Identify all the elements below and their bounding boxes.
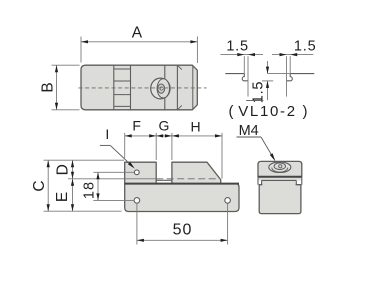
F/G/H extension line d bbox=[221, 133, 223, 179]
left lip profile bbox=[242, 74, 248, 81]
dimension 50 line bbox=[137, 239, 228, 241]
side view body top fill patch bbox=[262, 181, 295, 186]
M4 underline bbox=[237, 136, 262, 138]
side inner notch left bbox=[261, 180, 263, 184]
right 1.5 arrow a bbox=[280, 53, 287, 56]
vertical 1.5 lower line bbox=[267, 81, 269, 100]
side outer edge right below cap bbox=[301, 177, 303, 185]
svg-text:(: ( bbox=[229, 103, 234, 120]
dimension B arrow bottom bbox=[55, 103, 58, 110]
top view internal vertical edge right of ladder bbox=[130, 65, 132, 110]
hole I (upper) bbox=[134, 170, 139, 175]
ladder rung 1 bbox=[114, 68, 131, 70]
svg-text:A: A bbox=[132, 25, 143, 42]
svg-text:F: F bbox=[132, 117, 141, 133]
right top block bbox=[172, 162, 221, 183]
F/G/H extension line c bbox=[171, 133, 173, 160]
dimension E arrow bottom bbox=[71, 204, 74, 211]
screw head mid arc (side view) bbox=[272, 168, 288, 173]
dimension C arrow bottom bbox=[47, 204, 50, 211]
left 1.5 dimension line bbox=[221, 54, 264, 56]
dimension E arrow top bbox=[71, 179, 74, 186]
vertical 1.5 arrow up bbox=[266, 81, 269, 88]
svg-text:VL10-2: VL10-2 bbox=[238, 103, 297, 120]
label I leader arrow bbox=[128, 162, 135, 169]
dimension A arrow left bbox=[81, 40, 88, 43]
svg-text:C: C bbox=[31, 180, 48, 191]
svg-text:B: B bbox=[40, 82, 57, 92]
right 1.5 arrow b bbox=[290, 53, 297, 56]
side inner notch right bbox=[295, 180, 297, 184]
svg-text:50: 50 bbox=[173, 221, 193, 238]
svg-text:I: I bbox=[105, 126, 109, 142]
side outer edge left below cap bbox=[257, 177, 259, 185]
screw recess ellipse (top view) bbox=[158, 84, 165, 93]
M4 leader line bbox=[261, 137, 272, 155]
top extension line (front view) bbox=[44, 159, 125, 161]
svg-text:E: E bbox=[54, 192, 71, 202]
left lip outer extension line bbox=[243, 56, 245, 73]
label I leader line bbox=[110, 145, 130, 164]
screw head outer ellipse (top view) bbox=[151, 78, 170, 99]
svg-text:1.5: 1.5 bbox=[226, 39, 249, 55]
side view body bbox=[259, 185, 301, 214]
vertical 1.5 extension line at lip bottom bbox=[262, 80, 273, 82]
svg-text:H: H bbox=[191, 118, 201, 134]
top view center line bbox=[79, 87, 207, 89]
vertical 1.5 dimension upper line bbox=[267, 61, 269, 74]
F/G/H extension line b bbox=[155, 133, 157, 160]
svg-text:D: D bbox=[55, 164, 72, 175]
screw center dot (top view) bbox=[160, 87, 163, 90]
section surface line right bbox=[290, 73, 314, 75]
dimension C arrow top bbox=[47, 160, 50, 167]
D/E shared extension line bbox=[68, 178, 156, 180]
dimension 18 arrow top bbox=[96, 172, 99, 179]
left 1.5 arrow a bbox=[237, 53, 244, 56]
mounting hole right bbox=[225, 198, 231, 204]
section surface line left bbox=[225, 73, 244, 75]
svg-text:1.5: 1.5 bbox=[294, 39, 317, 55]
lower hole extension line bbox=[93, 199, 134, 201]
dimension A arrow right bbox=[190, 40, 197, 43]
svg-text:18: 18 bbox=[81, 181, 97, 199]
ladder rung 3 bbox=[114, 94, 131, 96]
screw slot dot (side view) bbox=[279, 165, 282, 168]
dimension B extension line top bbox=[52, 64, 80, 66]
screw head outer ellipse (side view) bbox=[269, 162, 291, 173]
right lip inner wall / extension line bbox=[286, 56, 288, 96]
hole I extension line bbox=[93, 171, 134, 173]
mounting hole left bbox=[134, 198, 140, 204]
dimension 50 arrow left bbox=[137, 239, 144, 242]
F/G/H dimension line bbox=[125, 135, 222, 137]
bottom extension line (front view) bbox=[44, 210, 122, 212]
right 1.5 dimension line bbox=[272, 54, 313, 56]
dimension H arrow left bbox=[172, 134, 179, 137]
dimension B line bbox=[56, 65, 58, 110]
base top heavy edge bbox=[125, 183, 239, 185]
side view middle connector fill bbox=[262, 180, 297, 184]
left top block bbox=[125, 162, 157, 183]
vertical 1.5 arrow down bbox=[266, 67, 269, 74]
left lip inner wall / extension line bbox=[247, 56, 249, 96]
vertical 1.5 extension line at surface bbox=[268, 73, 290, 75]
screw head inner ellipse (side view) bbox=[274, 163, 285, 170]
dimension H arrow right bbox=[215, 134, 222, 137]
M4 leader arrow bbox=[270, 153, 276, 161]
dimension D line bbox=[72, 160, 74, 179]
side view strip fill bbox=[258, 177, 302, 181]
dimension 18 arrow bottom bbox=[96, 193, 99, 200]
top view internal vertical edge through screw bbox=[164, 65, 166, 110]
svg-text:G: G bbox=[159, 117, 170, 133]
ladder rung 2 bbox=[114, 80, 131, 82]
dimension A line bbox=[81, 41, 197, 43]
dimension E line bbox=[72, 179, 74, 211]
top view internal vertical edge of right cap bbox=[176, 65, 178, 110]
dimension B extension line bottom bbox=[52, 109, 80, 111]
screw head offset ellipse (top view) bbox=[157, 79, 169, 98]
slot floor line bbox=[156, 179, 172, 181]
F/G/H extension line a bbox=[124, 133, 126, 158]
hidden dashed line bbox=[156, 178, 218, 180]
dimension D arrow bottom bbox=[71, 172, 74, 179]
right cap chamfer top-left bbox=[177, 65, 181, 69]
right lip profile bbox=[287, 74, 293, 81]
50 extension line right bbox=[227, 204, 229, 245]
side view cap bbox=[258, 161, 302, 176]
base plate bbox=[125, 184, 239, 212]
right cap chamfer bottom-left bbox=[177, 105, 181, 109]
dimension 18 line bbox=[97, 172, 99, 200]
right cap inner vertical edge bbox=[192, 65, 194, 110]
label I leader underline bbox=[100, 144, 110, 146]
dimension A extension line right bbox=[196, 37, 198, 64]
dimension G arrow left bbox=[156, 134, 163, 137]
svg-text:1.5: 1.5 bbox=[250, 81, 266, 104]
dimension F arrow right bbox=[149, 134, 156, 137]
side inner top edge bbox=[262, 179, 297, 181]
dimension G arrow right bbox=[165, 134, 172, 137]
svg-text:): ) bbox=[303, 103, 308, 120]
right lip outer extension line bbox=[289, 56, 291, 73]
dimension F arrow left bbox=[125, 134, 132, 137]
top view body bbox=[81, 65, 197, 110]
dimension D arrow top bbox=[71, 160, 74, 167]
left 1.5 arrow b bbox=[248, 53, 255, 56]
ladder rung 4 bbox=[114, 105, 131, 107]
dimension B arrow top bbox=[55, 65, 58, 72]
50 extension line left bbox=[136, 204, 138, 245]
dimension C line bbox=[47, 160, 49, 211]
cap bottom heavy edge bbox=[258, 176, 302, 178]
top view internal vertical edge left of ladder bbox=[113, 65, 115, 110]
section end mark line bbox=[246, 99, 263, 101]
dimension A extension line left bbox=[80, 37, 82, 63]
dimension 50 arrow right bbox=[221, 239, 228, 242]
